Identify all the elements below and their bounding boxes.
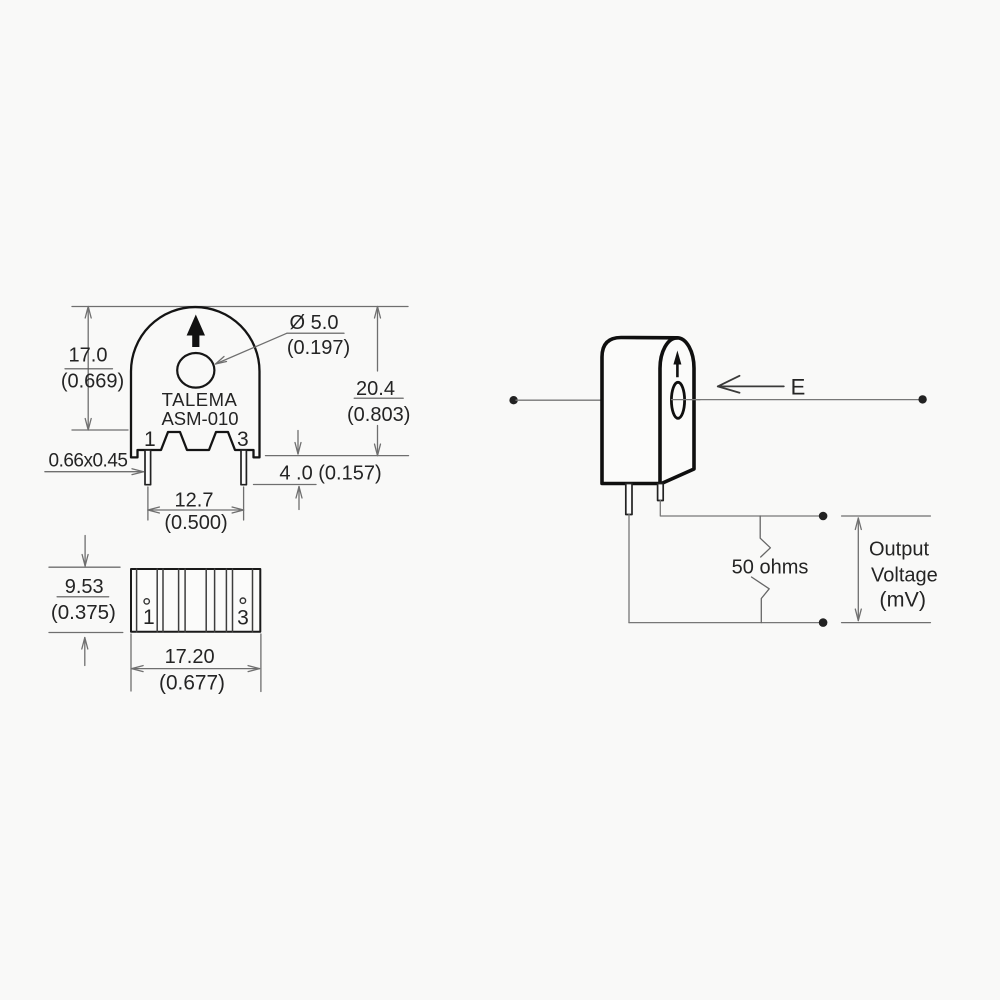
resistor 50 ohms	[760, 516, 770, 557]
dimension 9.53: arrows	[84, 536, 86, 567]
circuit: left terminal dot	[509, 396, 517, 404]
transformer 3D hole	[671, 382, 684, 418]
transformer 3D polarity arrow	[673, 351, 681, 378]
svg-text:20.4: 20.4	[356, 378, 395, 400]
polarity arrow (front view)	[187, 315, 205, 348]
bottom rail wire	[629, 622, 823, 624]
output node dot bottom	[819, 618, 828, 627]
svg-text:E: E	[791, 375, 806, 400]
svg-text:(0.197): (0.197)	[287, 337, 350, 359]
wire through hole	[672, 399, 701, 401]
svg-text:TALEMA: TALEMA	[162, 389, 238, 410]
dimension 17.0: lower extension line	[72, 429, 128, 431]
transformer 3D pin 3	[658, 484, 664, 501]
circuit: primary wire right segment	[672, 399, 921, 401]
secondary wire from pin 3	[660, 501, 823, 517]
svg-text:50 ohms: 50 ohms	[732, 557, 809, 579]
svg-text:(mV): (mV)	[879, 588, 926, 612]
pin 1 (front view)	[145, 450, 151, 485]
output node dot top	[819, 512, 828, 521]
svg-text:(0.803): (0.803)	[347, 404, 410, 426]
current direction arrow E	[718, 385, 784, 387]
seating plane extension line	[266, 455, 409, 457]
circuit: primary wire left segment	[516, 399, 602, 401]
svg-text:17.20: 17.20	[165, 646, 215, 668]
svg-text:9.53: 9.53	[65, 576, 104, 598]
dimension 17.0: vertical line with arrows	[87, 307, 89, 431]
pin bottom extension line	[254, 484, 317, 486]
dimension 4.0: upper arrow	[297, 431, 299, 455]
svg-text:17.0: 17.0	[69, 345, 108, 367]
dimension 12.7: extension lines	[147, 487, 149, 520]
svg-text:3: 3	[237, 428, 249, 451]
svg-text:Output: Output	[869, 539, 929, 561]
leader arrow to pin 1	[45, 471, 144, 473]
svg-text:(0.500): (0.500)	[164, 512, 227, 534]
pin 3 (front view)	[241, 450, 246, 485]
circuit: right terminal dot	[918, 395, 926, 403]
svg-text:(0.375): (0.375)	[51, 601, 116, 624]
front view: top extension line	[72, 306, 408, 308]
svg-text:12.7: 12.7	[175, 490, 214, 512]
svg-text:0.66x0.45: 0.66x0.45	[49, 451, 128, 472]
dimension 20.4: vertical line with arrows	[377, 307, 379, 372]
svg-text:ASM-010: ASM-010	[161, 408, 238, 429]
dimension 4.0: lower arrow	[298, 487, 300, 510]
output voltage dimension arrow	[857, 518, 859, 621]
transformer 3D silhouette	[602, 338, 694, 484]
transformer 3D front-right edge	[660, 338, 677, 484]
pin 1 marker (bottom view)	[144, 599, 149, 604]
svg-text:4 .0 (0.157): 4 .0 (0.157)	[279, 463, 381, 485]
svg-text:1: 1	[143, 606, 155, 629]
output voltage extension lines	[842, 515, 931, 517]
bottom view body	[131, 569, 260, 632]
secondary wire from pin 1	[628, 515, 630, 623]
bottom view winding lines	[137, 569, 253, 632]
dimension 17.20: dimension line	[132, 668, 260, 670]
pin 3 marker (bottom view)	[240, 598, 245, 603]
svg-text:1: 1	[144, 428, 156, 451]
svg-text:(0.677): (0.677)	[159, 672, 225, 695]
dimension 9.53: extension lines	[49, 566, 120, 568]
svg-text:3: 3	[237, 607, 249, 630]
svg-text:(0.669): (0.669)	[61, 370, 124, 392]
transformer 3D pin 1	[626, 484, 632, 515]
dimension 12.7: dimension line	[148, 509, 244, 511]
center hole (front view)	[177, 353, 214, 388]
transformer body front view outline	[131, 307, 260, 457]
svg-text:Ø 5.0: Ø 5.0	[290, 312, 339, 334]
svg-text:Voltage: Voltage	[871, 565, 938, 587]
dimension 17.20: extension lines	[130, 634, 132, 691]
